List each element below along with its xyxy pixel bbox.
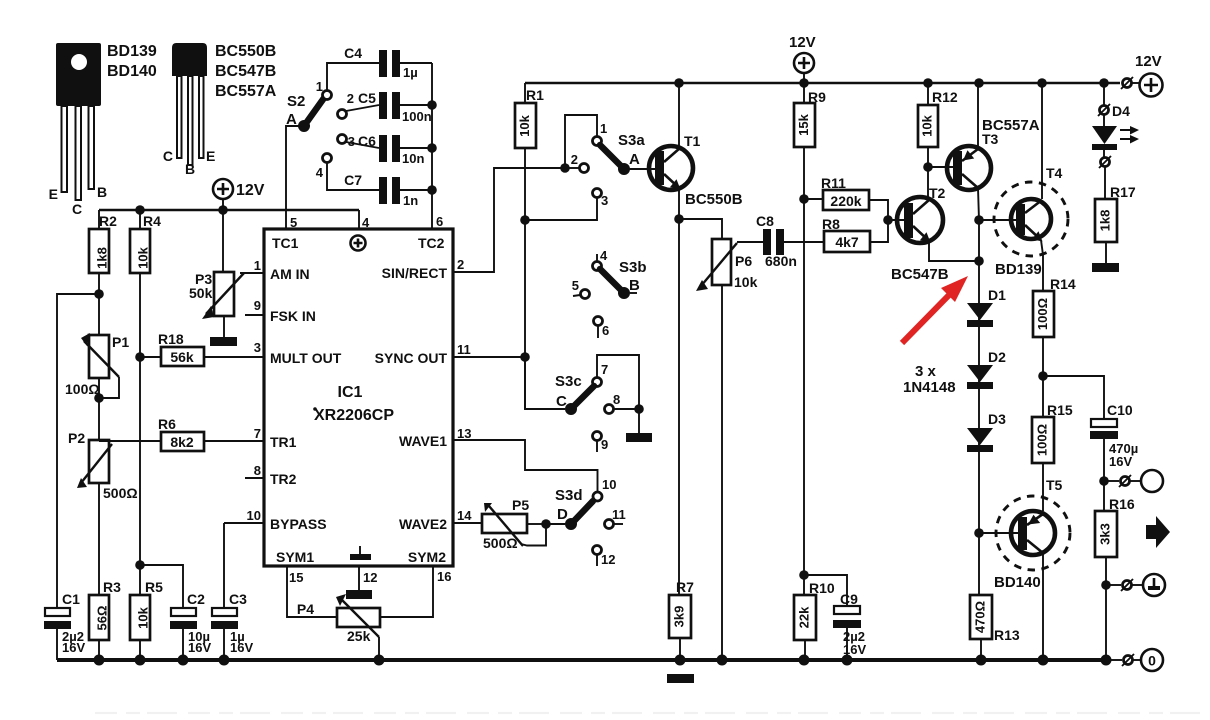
svg-text:12: 12 <box>601 552 615 567</box>
svg-text:10k: 10k <box>517 114 532 136</box>
svg-text:10n: 10n <box>402 151 424 166</box>
svg-text:D4: D4 <box>1112 103 1130 119</box>
terminal pin LED bottom <box>1099 156 1111 168</box>
potentiometer P2 <box>68 430 138 501</box>
svg-text:100Ω: 100Ω <box>1035 298 1050 330</box>
svg-text:3 x: 3 x <box>915 363 937 380</box>
svg-text:TC1: TC1 <box>272 235 299 251</box>
op-amp U1 IC1 XR2206CP body <box>264 229 453 566</box>
node R9 bus <box>799 78 809 88</box>
wire 12V top bus <box>525 82 1120 84</box>
wire to ground bar <box>638 409 640 433</box>
switch contact 12 S3d <box>593 546 616 568</box>
svg-text:25k: 25k <box>347 628 371 644</box>
transistor Q T5 <box>994 477 1070 591</box>
switch S2 common A <box>286 93 324 132</box>
node R1 sync <box>520 352 530 362</box>
wire pin16 to P4 <box>380 566 433 617</box>
svg-text:R9: R9 <box>808 89 826 105</box>
svg-text:D3: D3 <box>988 411 1006 427</box>
terminal pin 12V right <box>1121 77 1133 89</box>
svg-text:1k8: 1k8 <box>94 247 109 269</box>
svg-text:500Ω: 500Ω <box>483 535 518 551</box>
svg-text:7: 7 <box>254 426 261 441</box>
svg-text:7: 7 <box>601 362 608 377</box>
capacitor C7 <box>344 172 432 208</box>
node rail R13 <box>976 655 987 666</box>
switch S3c lever <box>555 373 594 415</box>
wire 12V rail left <box>99 209 359 211</box>
svg-text:BC550B: BC550B <box>215 43 276 60</box>
node rail R7 <box>675 655 686 666</box>
svg-text:R4: R4 <box>143 213 161 229</box>
svg-text:12V: 12V <box>789 34 816 51</box>
svg-text:12V: 12V <box>236 182 265 199</box>
ground bar below rail <box>667 674 694 683</box>
svg-text:16V: 16V <box>188 640 211 655</box>
wire D4 branch from bus <box>1103 83 1105 105</box>
svg-text:10k: 10k <box>135 606 150 628</box>
svg-text:SYM2: SYM2 <box>408 549 446 565</box>
svg-text:2: 2 <box>457 257 464 272</box>
svg-text:C10: C10 <box>1107 402 1133 418</box>
terminal pin 0V <box>1106 654 1141 666</box>
svg-text:B: B <box>629 277 640 294</box>
wire T5 collector <box>1042 553 1044 660</box>
resistor R17 <box>1095 167 1136 263</box>
svg-text:4: 4 <box>316 165 324 180</box>
svg-text:T5: T5 <box>1046 477 1063 493</box>
wire sync to S3c C <box>525 357 565 409</box>
wire T3 base <box>928 166 956 168</box>
node contact3 R1 <box>520 215 530 225</box>
svg-text:1: 1 <box>600 121 607 136</box>
svg-text:R17: R17 <box>1110 184 1136 200</box>
wire tap to C9 <box>804 575 847 606</box>
svg-text:FSK IN: FSK IN <box>270 308 316 324</box>
switch contact 4 S2 <box>316 154 379 191</box>
wire pin2 SIN/RECT to S3a <box>453 168 562 272</box>
wire T3 collector down <box>978 188 979 533</box>
svg-text:R5: R5 <box>145 579 163 595</box>
diode D2 <box>967 349 1006 389</box>
svg-text:R2: R2 <box>99 213 117 229</box>
node output mid <box>1101 580 1111 590</box>
svg-text:C5: C5 <box>358 90 376 106</box>
wire pin1 AM IN <box>240 272 264 274</box>
svg-text:R15: R15 <box>1047 402 1073 418</box>
svg-text:R1: R1 <box>526 87 544 103</box>
wire P2 to R3 <box>98 483 100 595</box>
svg-text:0: 0 <box>1148 653 1156 669</box>
svg-text:6: 6 <box>436 214 443 229</box>
resistor R2 <box>89 210 117 273</box>
svg-text:9: 9 <box>254 298 261 313</box>
node T2/T3/R12 <box>923 162 933 172</box>
resistor R1 <box>515 83 544 409</box>
node T5 base tap <box>974 528 984 538</box>
wire pin9 FSK stub <box>245 314 264 316</box>
transistor Q T2 <box>891 185 949 283</box>
wire pin12 stub <box>358 566 360 590</box>
capacitor C3 <box>211 523 253 660</box>
capacitor C8 <box>756 213 824 269</box>
ground bar pin12 <box>346 590 372 599</box>
resistor R11 <box>804 175 888 220</box>
node T3 emitter bus <box>974 78 984 88</box>
svg-text:56k: 56k <box>170 349 194 365</box>
resistor R14 <box>1033 276 1076 417</box>
wire capacitor bus <box>431 63 433 229</box>
svg-text:TR1: TR1 <box>270 434 297 450</box>
svg-text:R6: R6 <box>158 416 176 432</box>
potentiometer P5 <box>482 497 546 551</box>
svg-text:B: B <box>97 184 107 200</box>
svg-text:E: E <box>49 186 58 202</box>
node R12 bus <box>923 78 933 88</box>
signal arrow <box>1146 516 1170 548</box>
resistor R5 <box>130 579 163 660</box>
resistor R12 <box>918 83 958 167</box>
svg-text:15: 15 <box>289 570 303 585</box>
svg-text:WAVE1: WAVE1 <box>399 433 447 449</box>
svg-text:8k2: 8k2 <box>170 434 194 450</box>
svg-text:C3: C3 <box>229 591 247 607</box>
node R5/C2 tap <box>135 560 145 570</box>
wire T4 emitter to R14 <box>1041 240 1043 291</box>
node T2 base <box>883 215 893 225</box>
svg-text:BYPASS: BYPASS <box>270 516 327 532</box>
switch S3b lever <box>600 259 647 299</box>
wire T4 collector <box>1041 83 1043 199</box>
svg-text:1k8: 1k8 <box>1097 210 1112 232</box>
wire WAVE1 pin13 to contact10 <box>453 440 598 491</box>
node rail C9 <box>842 655 853 666</box>
svg-text:BC550B: BC550B <box>685 191 743 208</box>
svg-text:MULT OUT: MULT OUT <box>270 350 342 366</box>
svg-text:R13: R13 <box>994 627 1020 643</box>
potentiometer P1 <box>65 333 129 398</box>
svg-text:3: 3 <box>348 134 355 149</box>
svg-text:S3b: S3b <box>619 259 647 276</box>
ground bar P3 <box>210 337 237 346</box>
svg-text:R10: R10 <box>809 580 835 596</box>
diode D3 <box>967 411 1006 452</box>
svg-text:16V: 16V <box>62 640 85 655</box>
svg-text:E: E <box>206 148 215 164</box>
svg-text:3k3: 3k3 <box>1097 523 1112 545</box>
svg-text:P1: P1 <box>112 334 129 350</box>
node rail C3 <box>219 655 230 666</box>
svg-text:11: 11 <box>457 342 471 357</box>
svg-text:5: 5 <box>290 215 297 230</box>
svg-text:16V: 16V <box>1109 454 1132 469</box>
diode D1 <box>967 287 1006 327</box>
wire branch to C1 line <box>57 294 99 608</box>
svg-text:IC1: IC1 <box>338 384 363 401</box>
switch S3a lever <box>600 132 645 175</box>
svg-text:P2: P2 <box>68 430 85 446</box>
capacitor C2 <box>170 591 211 660</box>
resistor R13 <box>970 595 1020 660</box>
svg-text:WAVE2: WAVE2 <box>399 516 447 532</box>
node T2 emitter tap <box>974 256 984 266</box>
node S3c ground <box>634 404 644 414</box>
switch contact 9 S3c <box>593 432 609 453</box>
svg-text:1µ: 1µ <box>403 65 418 80</box>
svg-text:R7: R7 <box>676 579 694 595</box>
wire R2 bottom to P1 <box>98 273 100 335</box>
svg-text:C6: C6 <box>358 133 376 149</box>
svg-text:470Ω: 470Ω <box>972 601 987 633</box>
potentiometer P6 <box>696 239 763 660</box>
resistor R6 <box>99 416 264 451</box>
resistor R10 <box>794 580 835 660</box>
svg-text:1n: 1n <box>403 193 418 208</box>
svg-text:50k: 50k <box>189 285 213 301</box>
svg-text:13: 13 <box>457 426 471 441</box>
svg-text:100Ω: 100Ω <box>1034 424 1049 456</box>
wire node to contact1 <box>565 115 597 168</box>
wire pin10 BYPASS <box>224 522 264 524</box>
svg-text:220k: 220k <box>830 193 861 209</box>
terminal pin ground jack <box>1106 579 1143 591</box>
svg-text:9: 9 <box>601 437 608 452</box>
wire pin15 to P4 <box>287 566 337 617</box>
wire T2 collector <box>927 167 929 199</box>
svg-text:BC557A: BC557A <box>215 83 277 100</box>
12V supply symbol right <box>1132 53 1163 97</box>
switch contact 6 S3b <box>594 317 610 339</box>
svg-text:10k: 10k <box>734 274 758 290</box>
node T1 emitter <box>674 214 684 224</box>
ground mark inside IC <box>350 546 371 560</box>
transistor Q T1 <box>649 133 743 208</box>
capacitor C5 <box>358 90 432 124</box>
node C6 bus <box>427 143 437 153</box>
svg-text:T4: T4 <box>1046 165 1063 181</box>
svg-text:T2: T2 <box>929 185 946 201</box>
node T4 base tap <box>974 215 984 225</box>
svg-text:1: 1 <box>254 258 261 273</box>
resistor R16 <box>1095 481 1135 585</box>
wire R4 bottom column <box>139 273 141 595</box>
node rail P6 <box>717 655 728 666</box>
svg-text:B: B <box>185 161 195 177</box>
capacitor C9 <box>833 591 866 660</box>
ground socket circle <box>1143 574 1165 596</box>
resistor R8 <box>822 216 888 252</box>
node C7 bus <box>427 185 437 195</box>
svg-text:12V: 12V <box>1135 53 1162 70</box>
switch contact 2 S3a <box>569 152 589 173</box>
svg-text:22k: 22k <box>796 606 811 628</box>
svg-text:P6: P6 <box>735 253 752 269</box>
switch contact 3 S2 <box>338 134 380 149</box>
transistor Q T3 <box>947 117 1040 190</box>
wire T1 collector <box>678 83 680 148</box>
wire T2 emitter <box>929 241 979 261</box>
capacitor C6 <box>358 133 432 166</box>
resistor R15 <box>1032 402 1073 511</box>
wire pin4 stub <box>358 210 360 229</box>
svg-text:C1: C1 <box>62 591 80 607</box>
switch contact 1 S3a <box>593 121 608 146</box>
svg-text:R3: R3 <box>103 579 121 595</box>
node T1 collector bus <box>674 78 684 88</box>
node 12V left <box>218 205 228 215</box>
wire pin8 TR2 stub <box>245 477 264 479</box>
capacitor C10 <box>1090 402 1138 481</box>
svg-text:4: 4 <box>362 215 370 230</box>
switch contact 4 S3b <box>593 248 609 271</box>
resistor R4 <box>130 210 161 273</box>
12V supply symbol left <box>213 179 265 210</box>
svg-text:C9: C9 <box>840 591 858 607</box>
node rail R3 <box>94 655 105 666</box>
potentiometer P4 <box>297 594 380 660</box>
svg-text:2: 2 <box>571 152 578 167</box>
svg-text:C8: C8 <box>756 213 774 229</box>
svg-text:R11: R11 <box>821 175 846 191</box>
svg-text:R8: R8 <box>822 216 840 232</box>
wire D3 to R13 <box>978 533 980 595</box>
node T4 collector bus <box>1037 78 1047 88</box>
node C5 bus <box>427 100 437 110</box>
svg-text:8: 8 <box>613 392 620 407</box>
svg-text:T1: T1 <box>684 133 701 149</box>
node P5 wiper D <box>541 519 551 529</box>
switch contact 10 S3d <box>593 477 616 501</box>
svg-text:BC547B: BC547B <box>215 63 276 80</box>
svg-text:A: A <box>629 151 640 168</box>
svg-text:R14: R14 <box>1050 276 1076 292</box>
wire R5 tap to C2 <box>140 565 183 608</box>
svg-text:D2: D2 <box>988 349 1006 365</box>
svg-text:3: 3 <box>254 340 261 355</box>
svg-text:BD140: BD140 <box>107 63 157 80</box>
wire 0V bottom rail <box>57 658 1110 662</box>
svg-text:2: 2 <box>347 91 354 106</box>
wire base <box>888 219 907 221</box>
svg-text:S3a: S3a <box>618 132 645 149</box>
node rail R10 <box>799 655 810 666</box>
annotation red arrow <box>902 276 968 343</box>
LED D4 <box>1092 115 1139 158</box>
ground bar R17 <box>1092 263 1119 272</box>
svg-text:TR2: TR2 <box>270 471 297 487</box>
wire S2 A to pin5 <box>286 126 304 229</box>
svg-text:AM IN: AM IN <box>270 266 310 282</box>
svg-text:TC2: TC2 <box>418 235 445 251</box>
node S3a feed <box>560 163 570 173</box>
svg-text:11: 11 <box>612 507 626 522</box>
svg-text:1N4148: 1N4148 <box>903 379 956 396</box>
svg-text:5: 5 <box>572 278 579 293</box>
wire T1 emitter <box>678 188 680 595</box>
node rail T5 <box>1038 655 1049 666</box>
wire SYNC OUT pin11 <box>453 356 525 358</box>
svg-text:D1: D1 <box>988 287 1006 303</box>
svg-text:12: 12 <box>363 570 377 585</box>
node rail C2 <box>178 655 189 666</box>
wire R16 to rail <box>1105 585 1107 660</box>
svg-text:BC547B: BC547B <box>891 266 949 283</box>
wire T3 emitter up <box>977 83 979 149</box>
svg-text:S2: S2 <box>287 93 305 110</box>
svg-text:S3c: S3c <box>555 373 582 390</box>
wire D to node <box>546 523 565 525</box>
12V supply symbol middle <box>789 34 816 83</box>
svg-text:C: C <box>72 201 82 217</box>
scan artifact bottom <box>95 712 1205 714</box>
wire A to T1 base <box>624 168 658 170</box>
svg-text:4: 4 <box>600 248 608 263</box>
switch contact 3 S3a <box>525 189 608 221</box>
svg-text:15k: 15k <box>796 113 811 135</box>
svg-text:10: 10 <box>247 508 261 523</box>
transistor Q T4 <box>994 165 1068 278</box>
node rail P4 wiper <box>374 655 385 666</box>
svg-text:10k: 10k <box>135 246 150 268</box>
wire node to C10 <box>1043 376 1104 419</box>
svg-text:1: 1 <box>316 79 323 94</box>
svg-text:16V: 16V <box>230 640 253 655</box>
svg-text:10: 10 <box>602 477 616 492</box>
switch contact 7 S3c <box>593 355 640 405</box>
switch contact 1 S2 <box>316 63 379 100</box>
node rail R5 <box>135 655 146 666</box>
svg-text:R18: R18 <box>158 331 184 347</box>
svg-text:14: 14 <box>457 508 472 523</box>
svg-text:6: 6 <box>602 323 609 338</box>
wire WAVE2 pin14 <box>453 522 482 524</box>
potentiometer P3 <box>189 210 244 337</box>
svg-text:SYM1: SYM1 <box>276 549 314 565</box>
terminal pin output <box>1104 475 1141 487</box>
svg-text:C4: C4 <box>344 45 362 61</box>
switch contact 5 S3b <box>572 278 590 299</box>
svg-text:BD140: BD140 <box>994 574 1041 591</box>
wire T5 base <box>979 532 1021 534</box>
svg-text:P5: P5 <box>512 497 529 513</box>
svg-text:680n: 680n <box>765 253 797 269</box>
svg-text:BD139: BD139 <box>107 43 157 60</box>
switch contact 2 S2 <box>338 91 380 119</box>
wire emitter to P6 <box>679 219 722 239</box>
node R18 tap <box>135 352 145 362</box>
node output top <box>1099 476 1109 486</box>
capacitor C4 <box>344 45 432 80</box>
polarity mark inside IC <box>351 236 366 251</box>
node R2/C1 branch <box>94 289 104 299</box>
node R14/R15/C10 <box>1038 371 1048 381</box>
resistor R9 <box>794 83 826 595</box>
svg-text:56Ω: 56Ω <box>94 606 109 631</box>
node R11 tap <box>799 194 809 204</box>
node R10/C9 tap <box>799 570 809 580</box>
svg-text:3k9: 3k9 <box>671 606 686 628</box>
node D4 bus <box>1099 78 1109 88</box>
capacitor C1 <box>44 591 85 660</box>
svg-text:S3d: S3d <box>555 487 583 504</box>
node R4 top <box>135 205 145 215</box>
ground bar S3c <box>626 433 652 442</box>
svg-text:R12: R12 <box>932 89 958 105</box>
svg-text:C: C <box>163 148 173 164</box>
0V socket circle <box>1141 649 1163 671</box>
transistor package TO-126 BD139/BD140 <box>49 43 157 217</box>
